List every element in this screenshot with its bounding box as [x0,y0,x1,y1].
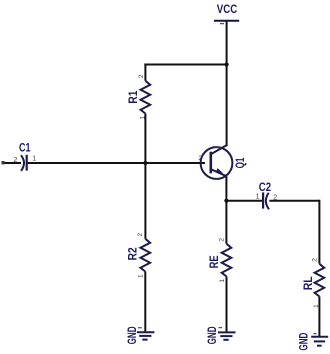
wire RE bottom to GND [226,277,228,333]
svg-text:GND: GND [297,332,311,350]
capacitor C2 [256,180,278,209]
wire RL bottom to GND [318,297,320,337]
svg-text:1: 1 [139,116,146,120]
svg-text:1: 1 [32,156,36,163]
power symbol VCC [214,2,239,24]
capacitor C1 [13,141,36,171]
wire C1 left stub [3,162,21,164]
Q1 pin 3 (emitter) [214,178,220,180]
junction base node R1 / R2 / C1 / Q1 base [143,161,147,165]
svg-text:R2: R2 [126,247,140,260]
svg-text:VCC: VCC [217,2,238,16]
svg-text:R1: R1 [126,90,140,103]
svg-text:1: 1 [256,193,260,200]
ground GND (RL) [297,332,329,350]
svg-text:1: 1 [219,279,226,283]
svg-text:C2: C2 [259,180,272,194]
Q1 pin 1 (collector) [216,146,222,148]
C1 unconnected pin marker [1,161,4,164]
svg-text:GND: GND [125,326,139,344]
svg-text:2: 2 [273,194,277,201]
wire C1 to Q1 base [27,162,206,164]
resistor RL [301,258,324,308]
wire C2 right plate to corner [269,200,319,202]
wire emitter node to C2 left plate [226,200,263,202]
resistor R2 [126,233,150,278]
wire R1 top horizontal to VCC net [144,64,226,66]
svg-text:2: 2 [218,238,225,242]
svg-text:RE: RE [207,255,221,268]
ground GND (R2) [125,326,154,344]
svg-text:2: 2 [198,155,202,162]
svg-text:GND: GND [205,326,219,344]
svg-text:2: 2 [138,74,145,78]
wire R1 top vertical stub [144,64,146,81]
svg-text:RL: RL [301,276,315,290]
svg-text:Q1: Q1 [233,157,247,168]
resistor R1 [126,74,150,119]
resistor RE [207,238,231,283]
wire Q1 emitter to RE top [225,176,227,244]
wire R1 bottom to R2 top (through base node) [144,114,146,239]
transistor Q1 [198,145,247,179]
ground GND (RE) [205,326,236,344]
svg-text:1: 1 [137,274,144,278]
svg-text:2: 2 [137,233,144,237]
svg-text:2: 2 [311,258,318,262]
wire R2 bottom to GND [144,272,146,333]
wire VCC vertical (VCC bar down to Q1 collector) [226,21,228,147]
svg-text:2: 2 [13,155,17,164]
junction VCC / R1 / Q1 collector [225,62,229,66]
svg-text:C1: C1 [19,141,31,155]
wire corner down to RL top [318,200,320,264]
svg-text:1: 1 [313,304,320,308]
junction emitter node Q1 / RE / C2 [224,199,228,203]
